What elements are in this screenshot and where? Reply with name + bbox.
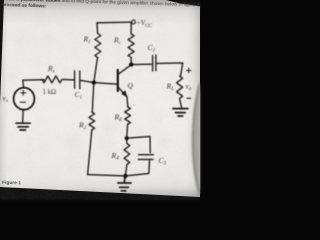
transistor Q emitter arrowhead <box>121 90 127 97</box>
wire C3 branch bottom <box>148 160 151 174</box>
wire C3 branch top <box>127 136 151 152</box>
svg-text:Q: Q <box>128 81 134 90</box>
transistor Q collector wire <box>118 65 131 74</box>
paper grain <box>0 0 200 200</box>
figure caption <box>2 179 21 185</box>
svg-text:1 kΩ: 1 kΩ <box>43 89 57 96</box>
wire RC top <box>130 22 132 34</box>
wire vs to Rs <box>23 80 44 88</box>
node dot: base junction <box>92 80 96 84</box>
wire base node to transistor base <box>94 83 118 85</box>
capacitor C3 plates <box>139 154 154 156</box>
capacitor C2 plates <box>152 56 154 72</box>
wire emitter to RE <box>126 96 129 106</box>
right page-edge shadow <box>0 0 200 200</box>
wire Rs to C1 <box>62 78 74 81</box>
wire R2 to bottom rail <box>88 130 92 175</box>
wire node to R4 <box>126 138 128 143</box>
ground under bottom rail <box>118 176 131 191</box>
node dot: collector junction <box>129 62 133 66</box>
wire R1 to base node <box>94 58 98 83</box>
wire base node down to R2 <box>92 83 94 112</box>
node dot: bottom rail junction <box>123 174 127 178</box>
resistor RC <box>128 34 134 58</box>
source vs circle <box>14 88 35 110</box>
resistor R2 <box>89 112 95 130</box>
resistor R1 <box>95 34 101 58</box>
wire top rail <box>97 21 132 24</box>
wire RL to ground <box>180 99 182 108</box>
wire bottom rail <box>88 173 149 176</box>
R1 branch wire top <box>96 23 99 34</box>
ground under vs <box>16 123 30 130</box>
wire R4 to bottom rail <box>125 165 127 176</box>
VCC terminal circle <box>132 20 136 24</box>
resistor Rs <box>42 76 62 83</box>
wire C2 to RL <box>156 63 183 76</box>
transistor Q emitter wire <box>118 87 126 96</box>
top paragraph text <box>2 0 232 17</box>
page background (scanned paper) <box>0 0 200 200</box>
plus sign output <box>187 68 192 98</box>
plus/minus inside source vs <box>20 90 25 102</box>
resistor RL <box>177 76 183 99</box>
capacitor C1 plates <box>74 71 76 89</box>
wire vs to ground <box>22 110 25 122</box>
transistor Q base bar <box>117 70 119 91</box>
wire RE to node <box>126 124 129 138</box>
ground under RL <box>173 109 188 116</box>
resistor RE <box>125 107 131 125</box>
wire RC bottom to collector node <box>130 58 132 65</box>
wire C1 to base node <box>80 80 94 82</box>
node dot: emitter/C3 junction <box>125 136 129 140</box>
wire collector node to C2 <box>131 63 152 65</box>
resistor R4 <box>124 144 130 165</box>
